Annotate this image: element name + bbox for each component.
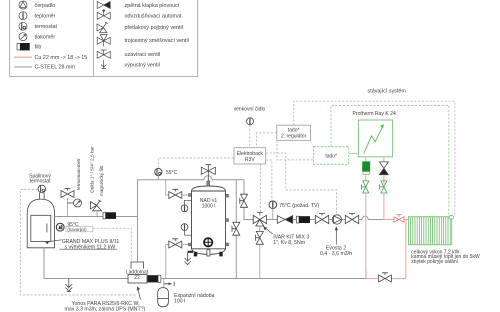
svg-text:čerpadlo: čerpadlo: [35, 3, 56, 9]
return header pipe: [161, 278, 366, 280]
tank NAD v1 body: [192, 186, 226, 254]
boiler GRAND MAX body: [27, 199, 54, 248]
svg-text:tado*: tado*: [325, 154, 337, 160]
svg-text:teploměr: teploměr: [35, 14, 56, 20]
svg-text:55°C: 55°C: [166, 170, 178, 176]
riser right B (tank bypass to return): [235, 180, 237, 279]
svg-text:termostat: termostat: [35, 24, 58, 30]
svg-text:C-STEEL 28 mm: C-STEEL 28 mm: [35, 65, 76, 71]
red stub right port: [383, 157, 385, 162]
svg-text:zpětná klapka plovoucí: zpětná klapka plovoucí: [125, 3, 180, 9]
red riser Protherm return: [365, 193, 367, 279]
boiler door: [31, 215, 51, 241]
valve on riser B: [232, 222, 240, 235]
thermometer 75C: [269, 201, 277, 220]
check valve under Protherm: [379, 162, 388, 175]
tado thermostat box (green): [314, 147, 349, 165]
pipe: [342, 219, 346, 221]
svg-text:22: 22: [134, 275, 140, 281]
legend 3-way mixing valve icon: [97, 35, 110, 47]
green shutoff valve right: [380, 181, 387, 193]
Laddomat 22 unit: [126, 262, 149, 283]
legend Cu line sample: [14, 56, 32, 58]
mix outlet pipe: [266, 219, 277, 221]
svg-text:0,4 - 3,6 m3/h: 0,4 - 3,6 m3/h: [320, 251, 352, 257]
legend air vent icon: [97, 10, 110, 20]
Elektroback R3V box: [234, 148, 266, 164]
svg-text:Protherm Ray K 24: Protherm Ray K 24: [353, 111, 396, 117]
svg-text:magnetický filtr: magnetický filtr: [99, 165, 104, 196]
flue thermostat circle: [38, 185, 46, 193]
label Evosta 2 with arrow: [320, 226, 352, 256]
label Laddomat 22: [126, 269, 149, 281]
radiator thermostatic head (green circle): [449, 215, 454, 219]
legend C-STEEL line sample: [14, 66, 32, 68]
svg-text:filtr: filtr: [35, 45, 42, 51]
green filter under Protherm: [362, 161, 370, 174]
expansion vessel: [158, 288, 169, 307]
svg-text:trojcestný směšovací ventil: trojcestný směšovací ventil: [125, 38, 189, 44]
Laddomat filter: [148, 275, 161, 282]
label IVAR KIT MIX 3 with leader: [264, 227, 310, 246]
top header pipe with crossover hump: [138, 176, 245, 180]
tank lower-left shutoff valve: [166, 239, 189, 279]
svg-text:termomanometr: termomanometr: [76, 158, 81, 190]
wire Elektroback to Evosta pump: [266, 153, 337, 214]
drain valve on boiler return: [65, 279, 72, 292]
valve below IVAR mix: [256, 226, 264, 279]
green zone boundary dashed: [331, 105, 449, 215]
magnetic filter: [103, 212, 116, 219]
svg-text:venkovní čidlo: venkovní čidlo: [234, 107, 266, 113]
wire outdoor sensor to Elektroback: [249, 125, 251, 148]
tank left nozzles: [189, 194, 192, 246]
wire Elektroback to 75C sensor: [266, 160, 272, 201]
svg-text:(havarijní): (havarijní): [67, 227, 87, 232]
svg-text:odvzdušňovací automat: odvzdušňovací automat: [125, 13, 182, 19]
control wire 55C to Elektroback: [158, 158, 234, 168]
wire tado2 to Elektroback: [257, 133, 277, 148]
legend safety valve icon: [97, 22, 108, 33]
red stub left port: [365, 157, 367, 161]
tank thermometer lower: [181, 224, 191, 235]
tank upper-left shutoff valve: [166, 180, 189, 199]
Protherm electric boiler box: [358, 120, 392, 157]
svg-text:s výměníkem 11,2 kW: s výměníkem 11,2 kW: [65, 245, 116, 251]
wire tado to Protherm (green): [349, 152, 359, 154]
wire tado2 to tado thermostat: [277, 140, 314, 160]
filter on mix outlet: [296, 216, 310, 223]
control wire 95C to Laddomat: [93, 228, 131, 262]
boiler fill valve: [61, 189, 74, 217]
safety thermostat 95C circle: [56, 223, 64, 231]
legend pressure-gauge icon: [19, 33, 27, 41]
riser right A (to mix): [244, 180, 253, 220]
red stub: [365, 174, 367, 181]
label 95C havarijni: [66, 222, 93, 232]
radiator: [408, 217, 451, 245]
svg-text:max 3,3 m3/h; záloha UPS (MNT?: max 3,3 m3/h; záloha UPS (MNT?): [65, 306, 146, 312]
IVAR KIT MIX 3 mixing valve: [253, 213, 266, 227]
red radiator return drop: [391, 220, 406, 279]
tank top nozzle: [207, 181, 210, 186]
pipe: [293, 219, 297, 221]
legend pump icon: [19, 1, 27, 9]
tank thermometer upper: [181, 200, 191, 211]
boiler return pipe down and to Laddomat: [44, 248, 128, 279]
return valve bottom right: [379, 273, 392, 282]
legend check valve icon: [97, 2, 110, 9]
svg-text:přetlakový pojistný ventil: přetlakový pojistný ventil: [125, 25, 183, 31]
radiator valve (red): [394, 215, 404, 223]
expansion vessel connection with arrow: [164, 279, 174, 288]
tank right nozzles: [226, 194, 229, 246]
pipe: [310, 219, 316, 221]
tank flange circle: [204, 238, 212, 246]
legend filter icon: [17, 44, 29, 50]
check valve on mix outlet: [277, 216, 292, 224]
thermo-manometer gauge: [68, 199, 82, 207]
svg-text:termostat: termostat: [30, 179, 51, 185]
tank top valve: [201, 165, 215, 181]
safety relief valve: [90, 200, 101, 217]
55C tank thermostat: [155, 168, 162, 179]
svg-text:R3V: R3V: [245, 157, 255, 163]
svg-text:výpustný ventil: výpustný ventil: [125, 63, 160, 69]
green shutoff valve left: [362, 181, 369, 193]
label GRAND MAX with leader arrow: [45, 239, 119, 251]
tank drain elbow: [188, 251, 193, 253]
tank drain valve: [185, 253, 191, 265]
red stub: [383, 175, 385, 185]
tado 2.regulator box: [277, 125, 311, 140]
tank legs: [194, 252, 223, 257]
tank bottom stub: [207, 250, 210, 257]
boiler chimney neck: [40, 193, 45, 200]
pump Evosta 2: [332, 215, 341, 224]
wire tado2 boundary to radiator (gray dashed): [294, 101, 455, 216]
svg-text:zbytek pokryje sálání: zbytek pokryje sálání: [411, 259, 458, 265]
shutoff valve after pump: [345, 213, 358, 223]
pipe with hump over red riser: [359, 216, 384, 219]
red return to junction: [366, 270, 379, 279]
svg-text:1", Kv 8, 5Nm: 1", Kv 8, 5Nm: [273, 240, 305, 246]
shutoff valve before pump: [315, 213, 328, 223]
valve on riser A: [240, 194, 248, 207]
red pipe to radiator valve: [384, 219, 394, 221]
svg-text:1000 l: 1000 l: [202, 204, 216, 210]
red riser Protherm supply: [383, 193, 385, 220]
legend shut-off valve icon: [97, 50, 110, 58]
svg-text:stávající systém: stávající systém: [368, 89, 407, 95]
control wire flue thermostat to Laddomat: [21, 190, 138, 296]
svg-text:75°C (požad. TV): 75°C (požad. TV): [279, 203, 319, 209]
svg-text:Cu 22 mm -> 18 -> 15: Cu 22 mm -> 18 -> 15: [35, 55, 88, 61]
pipe: [329, 219, 333, 221]
outdoor sensor icon: [247, 118, 254, 125]
svg-text:tlakoměr: tlakoměr: [35, 35, 56, 41]
svg-text:Dukla 1" / 5/4" 2,5 bar: Dukla 1" / 5/4" 2,5 bar: [90, 146, 96, 193]
svg-text:uzavíraci ventil: uzavíraci ventil: [125, 52, 161, 58]
boiler supply pipe: [55, 216, 138, 218]
svg-text:100 l: 100 l: [174, 298, 185, 304]
leader arrow Yonos to Laddomat: [137, 287, 140, 300]
legend thermometer icon: [19, 12, 27, 20]
svg-text:2. regulátor: 2. regulátor: [281, 134, 307, 140]
wire Elektroback to IVAR mix: [260, 164, 262, 212]
red pipe into radiator: [404, 219, 408, 221]
riser from boiler supply to top header: [137, 180, 139, 262]
legend thermostat icon: [19, 22, 27, 30]
legend drain valve icon: [101, 60, 106, 69]
legend frame: [10, 0, 198, 77]
